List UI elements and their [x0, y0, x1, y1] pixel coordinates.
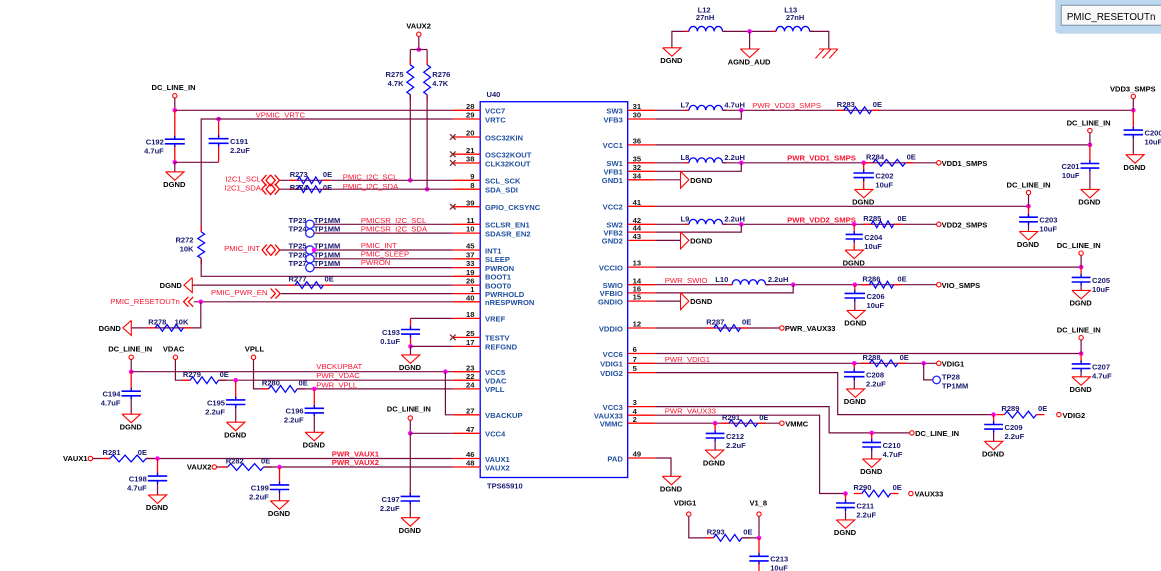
capacitor C208	[844, 371, 886, 389]
junction	[417, 47, 422, 52]
svg-text:DGND: DGND	[1069, 299, 1092, 308]
svg-text:GPIO_CKSYNC: GPIO_CKSYNC	[485, 203, 541, 212]
junction	[173, 160, 178, 165]
svg-text:R275: R275	[386, 70, 404, 79]
wire C202 lead	[863, 163, 865, 173]
chassis ground	[815, 49, 837, 58]
ground DGND (C195)	[224, 422, 247, 439]
wire C201 lead	[1089, 145, 1091, 164]
svg-text:11: 11	[466, 216, 475, 225]
wire C213 lead	[758, 538, 760, 556]
resistor R293	[706, 528, 753, 542]
svg-text:TP1MM: TP1MM	[314, 259, 340, 268]
wire	[281, 293, 453, 295]
svg-text:VDAC: VDAC	[485, 377, 507, 386]
capacitor C199	[249, 483, 289, 501]
junction	[739, 161, 744, 166]
capacitor C204	[846, 233, 884, 251]
svg-text:27nH: 27nH	[786, 13, 804, 22]
svg-text:DC_LINE_IN: DC_LINE_IN	[387, 405, 431, 414]
junction	[155, 456, 160, 461]
svg-text:0E: 0E	[261, 457, 270, 466]
svg-text:GNDIO: GNDIO	[598, 297, 623, 306]
svg-text:VAUX1: VAUX1	[63, 454, 88, 463]
svg-text:2.2uF: 2.2uF	[230, 146, 250, 155]
svg-text:DGND: DGND	[660, 485, 683, 494]
svg-text:0E: 0E	[900, 353, 909, 362]
svg-text:C192: C192	[146, 138, 164, 147]
svg-text:VDD3_SMPS: VDD3_SMPS	[1110, 85, 1156, 94]
svg-text:DGND: DGND	[843, 258, 866, 267]
svg-text:DC_LINE_IN: DC_LINE_IN	[1057, 326, 1101, 335]
svg-text:nRESPWRON: nRESPWRON	[485, 298, 534, 307]
svg-text:VMMC: VMMC	[785, 419, 809, 428]
svg-text:DGND: DGND	[99, 324, 122, 333]
svg-text:37: 37	[466, 250, 474, 259]
svg-text:DGND: DGND	[834, 528, 857, 537]
test point TP24	[306, 229, 314, 237]
svg-text:0E: 0E	[323, 183, 332, 192]
port DC_LINE_IN (VCCIO)	[1057, 241, 1101, 255]
svg-text:R284: R284	[866, 152, 885, 161]
svg-text:PWR_VDIG1: PWR_VDIG1	[665, 355, 710, 364]
wire	[853, 377, 855, 389]
port DC_LINE_IN	[152, 83, 196, 98]
svg-text:C204: C204	[864, 233, 883, 242]
svg-text:L7: L7	[681, 101, 690, 110]
svg-text:PWR_VAUX1: PWR_VAUX1	[332, 449, 380, 458]
svg-text:R287: R287	[706, 318, 724, 327]
wire	[426, 50, 428, 65]
wire	[1028, 195, 1030, 207]
svg-text:VCCIO: VCCIO	[599, 263, 623, 272]
capacitor C198	[127, 475, 167, 493]
wire	[130, 360, 132, 372]
no-connect pin 39	[450, 204, 456, 210]
svg-text:0E: 0E	[138, 448, 147, 457]
wire VCC1 net	[655, 144, 1090, 146]
capacitor C207	[1072, 362, 1112, 380]
svg-text:R277: R277	[289, 275, 307, 284]
test point TP27	[306, 263, 314, 271]
port DC_LINE_IN (VCC3)	[910, 429, 959, 438]
svg-text:U40: U40	[487, 90, 501, 99]
resistor R279	[182, 370, 229, 384]
svg-text:0E: 0E	[1038, 404, 1047, 413]
svg-text:R293: R293	[707, 528, 725, 537]
wire VFB2	[655, 224, 741, 232]
svg-text:R273: R273	[290, 170, 308, 179]
svg-text:R289: R289	[1001, 404, 1019, 413]
wire	[1132, 99, 1134, 111]
wire	[853, 239, 855, 250]
wire GNDIO	[655, 300, 680, 302]
svg-text:4.7uF: 4.7uF	[144, 147, 164, 156]
wire	[175, 161, 219, 163]
wire C206 lead	[854, 285, 856, 294]
svg-text:DGND: DGND	[224, 431, 247, 440]
svg-text:DGND: DGND	[690, 176, 713, 185]
svg-text:DGND: DGND	[303, 441, 326, 450]
junction	[408, 344, 413, 349]
svg-text:6: 6	[633, 345, 637, 354]
svg-text:C200: C200	[1145, 129, 1161, 138]
svg-text:7: 7	[633, 355, 637, 364]
svg-text:0E: 0E	[873, 100, 882, 109]
wire	[130, 396, 132, 414]
svg-text:30: 30	[633, 111, 641, 120]
svg-text:20: 20	[466, 129, 474, 138]
svg-text:DC_LINE_IN: DC_LINE_IN	[915, 429, 959, 438]
svg-text:DGND: DGND	[163, 180, 186, 189]
wire VDIG1 net	[655, 362, 939, 364]
wire	[279, 188, 452, 190]
svg-text:PMIC_I2C_SCL: PMIC_I2C_SCL	[343, 173, 398, 182]
svg-text:VMMC: VMMC	[600, 420, 624, 429]
svg-text:10uF: 10uF	[1039, 225, 1057, 234]
wire VMMC net	[655, 422, 782, 424]
svg-text:DC_LINE_IN: DC_LINE_IN	[1067, 118, 1111, 127]
svg-text:0.1uF: 0.1uF	[380, 337, 400, 346]
svg-text:PWR_VDAC: PWR_VDAC	[316, 371, 360, 380]
wire	[749, 31, 751, 49]
svg-text:C197: C197	[382, 495, 400, 504]
wire	[758, 561, 760, 571]
svg-text:R281: R281	[103, 448, 121, 457]
wire	[313, 413, 315, 432]
resistor R284	[865, 152, 916, 166]
capacitor C206	[845, 292, 885, 310]
port VMMC	[780, 419, 809, 428]
svg-text:SDASR_EN2: SDASR_EN2	[485, 229, 531, 238]
wire VCC5 net	[131, 371, 453, 373]
svg-text:2.2uF: 2.2uF	[866, 380, 886, 389]
svg-text:SLEEP: SLEEP	[485, 255, 510, 264]
wire	[655, 284, 732, 286]
test point TP25	[306, 246, 314, 254]
junction	[277, 465, 282, 470]
test point TP26	[306, 255, 314, 263]
resistor R290	[853, 483, 901, 497]
wire	[426, 95, 428, 190]
wire PAD net	[655, 458, 671, 476]
wire VAUX1 net	[146, 458, 453, 460]
svg-text:R282: R282	[226, 457, 244, 466]
svg-text:10uF: 10uF	[1092, 285, 1110, 294]
resistor R288	[862, 353, 909, 367]
svg-text:33: 33	[466, 259, 474, 268]
svg-text:VAUX33: VAUX33	[915, 490, 944, 499]
wire	[314, 258, 453, 260]
svg-text:VDIG1: VDIG1	[674, 499, 697, 508]
svg-text:C209: C209	[1005, 423, 1023, 432]
resistor R285	[863, 214, 906, 228]
svg-text:PMIC_INT: PMIC_INT	[224, 244, 260, 253]
svg-text:R279: R279	[183, 370, 201, 379]
capacitor C192	[144, 138, 185, 156]
ground DGND (C206)	[844, 310, 867, 327]
svg-text:34: 34	[633, 171, 642, 180]
svg-text:VBCKUPBAT: VBCKUPBAT	[316, 362, 362, 371]
svg-text:4.7uF: 4.7uF	[883, 450, 903, 459]
svg-text:VDD1_SMPS: VDD1_SMPS	[942, 159, 988, 168]
svg-text:R288: R288	[863, 353, 881, 362]
port VDAC	[163, 345, 185, 360]
wire VCCIO net	[655, 266, 1081, 268]
wire	[131, 302, 201, 328]
svg-text:10uF: 10uF	[770, 564, 788, 571]
off-page connector PMIC_RESETOUTn	[184, 297, 194, 307]
capacitor C197	[380, 495, 420, 513]
junction	[921, 361, 926, 366]
svg-text:GND1: GND1	[602, 176, 624, 185]
junction	[991, 412, 996, 417]
wire	[410, 49, 427, 51]
svg-text:PWR_VAUX2: PWR_VAUX2	[332, 458, 379, 467]
svg-text:SDA_SDI: SDA_SDI	[485, 186, 518, 195]
port VPLL	[245, 345, 265, 360]
wire	[672, 31, 689, 47]
capacitor C202	[854, 171, 894, 189]
svg-text:C199: C199	[251, 483, 269, 492]
port DC_LINE_IN (VCC1)	[1067, 118, 1111, 133]
wire VAUX2 net	[264, 466, 453, 468]
svg-text:C201: C201	[1061, 162, 1079, 171]
wire	[409, 420, 411, 433]
resistor R274	[289, 183, 332, 193]
capacitor C213	[749, 555, 788, 571]
ground DGND (R278)	[99, 320, 132, 335]
wire	[418, 37, 420, 50]
wire	[279, 490, 281, 501]
svg-text:0E: 0E	[325, 275, 334, 284]
junction	[739, 108, 744, 113]
svg-text:VDD2_SMPS: VDD2_SMPS	[942, 221, 988, 230]
svg-text:VCC4: VCC4	[485, 430, 506, 439]
svg-text:PMIC_RESETOUTn: PMIC_RESETOUTn	[1067, 12, 1156, 23]
wire	[254, 360, 269, 389]
junction	[312, 248, 317, 253]
svg-text:4.7K: 4.7K	[432, 79, 448, 88]
wire C208 lead	[853, 363, 855, 372]
resistor R283	[836, 100, 882, 114]
wire	[157, 481, 159, 495]
svg-text:TP1MM: TP1MM	[942, 382, 968, 391]
wire	[689, 516, 714, 538]
wire VDD2 net	[723, 223, 939, 225]
wire	[758, 516, 760, 538]
wire	[1080, 282, 1082, 290]
wire VCC3 net	[655, 407, 912, 433]
port VIO_SMPS	[937, 281, 981, 290]
junction	[713, 421, 718, 426]
svg-text:VRTC: VRTC	[485, 115, 506, 124]
wire C205 lead	[1080, 267, 1082, 277]
wire	[810, 31, 829, 49]
svg-text:VCC1: VCC1	[603, 141, 624, 150]
svg-text:PWR_VAUX33: PWR_VAUX33	[785, 324, 836, 333]
wire	[1080, 255, 1082, 267]
port DC_LINE_IN (VCC6)	[1057, 326, 1101, 340]
port VDIG2	[1057, 411, 1085, 420]
wire	[409, 501, 411, 518]
ground AGND_AUD	[728, 49, 771, 66]
ground DGND (C200)	[1123, 155, 1146, 172]
svg-text:DGND: DGND	[703, 458, 726, 467]
no-connect pin 21	[450, 151, 456, 157]
wire C197 lead	[409, 492, 411, 497]
junction	[233, 378, 238, 383]
no-connect pin 25	[450, 335, 456, 341]
port VAUX33	[909, 490, 944, 499]
svg-text:0E: 0E	[897, 274, 906, 283]
svg-text:31: 31	[633, 102, 642, 111]
svg-text:49: 49	[633, 450, 641, 459]
svg-text:10K: 10K	[180, 245, 194, 254]
svg-text:R285: R285	[863, 214, 881, 223]
test point TP23	[306, 220, 314, 228]
capacitor pin stubs	[131, 127, 1133, 565]
svg-text:DGND: DGND	[268, 509, 291, 518]
svg-text:DGND: DGND	[120, 423, 143, 432]
svg-text:0E: 0E	[742, 318, 751, 327]
wire	[411, 345, 453, 347]
wire C198 lead	[157, 459, 159, 477]
junction	[843, 491, 848, 496]
svg-text:C213: C213	[770, 555, 788, 564]
svg-text:2.2uF: 2.2uF	[1005, 432, 1025, 441]
svg-text:GND2: GND2	[602, 237, 623, 246]
svg-text:DGND: DGND	[146, 503, 169, 512]
junction	[199, 300, 204, 305]
no-connect pin 38	[450, 160, 456, 166]
svg-text:PWR_VDD2_SMPS: PWR_VDD2_SMPS	[787, 215, 856, 224]
svg-text:DGND: DGND	[690, 297, 713, 306]
wire	[409, 50, 411, 65]
wire C209 lead	[993, 415, 995, 425]
ground DGND (C202)	[852, 189, 875, 206]
svg-text:DGND: DGND	[844, 397, 867, 406]
off-page connector I2C1_SDA	[262, 184, 280, 195]
off-page connector I2C1_SCL	[262, 175, 280, 186]
ground DGND (C198)	[146, 495, 169, 512]
ground DGND (C193)	[399, 355, 422, 372]
wire C204 lead	[853, 224, 855, 234]
svg-text:VDIG1: VDIG1	[942, 360, 965, 369]
svg-text:DGND: DGND	[399, 363, 422, 372]
svg-text:39: 39	[466, 198, 474, 207]
svg-text:36: 36	[633, 137, 641, 146]
svg-text:DGND: DGND	[844, 319, 867, 328]
inductor L10	[715, 275, 788, 285]
svg-text:R276: R276	[432, 70, 450, 79]
wire C203 lead	[1028, 206, 1030, 217]
off-page connector PMIC_INT	[262, 245, 280, 256]
port VDD1_SMPS	[937, 159, 988, 168]
capacitor C209	[984, 423, 1024, 441]
svg-text:10uF: 10uF	[1062, 171, 1080, 180]
svg-text:R283: R283	[837, 100, 855, 109]
junction	[425, 187, 430, 192]
svg-text:OSC32KOUT: OSC32KOUT	[485, 151, 532, 160]
svg-text:DGND: DGND	[1078, 198, 1101, 207]
svg-text:9: 9	[470, 172, 474, 181]
svg-text:R280: R280	[262, 379, 280, 388]
svg-text:2.2uF: 2.2uF	[380, 504, 400, 513]
svg-text:22: 22	[466, 372, 474, 381]
resistor R280	[261, 379, 308, 393]
svg-text:DGND: DGND	[860, 467, 883, 476]
ground DGND (C205)	[1069, 290, 1092, 307]
svg-text:18: 18	[466, 310, 474, 319]
svg-text:DC_LINE_IN: DC_LINE_IN	[1007, 180, 1051, 189]
svg-text:TP28: TP28	[942, 372, 960, 381]
svg-text:24: 24	[466, 381, 475, 390]
wire	[93, 458, 111, 460]
svg-text:DC_LINE_IN: DC_LINE_IN	[152, 83, 196, 92]
wire	[655, 162, 689, 164]
wire	[1089, 168, 1091, 189]
svg-text:VBACKUP: VBACKUP	[485, 411, 523, 420]
svg-text:C198: C198	[129, 475, 147, 484]
capacitor C196	[284, 407, 324, 425]
wire VCC2 net	[655, 205, 1028, 207]
svg-text:0E: 0E	[897, 214, 906, 223]
capacitor C212	[706, 432, 746, 450]
junction	[1079, 265, 1084, 270]
svg-text:INT1: INT1	[485, 246, 502, 255]
svg-text:V1_8: V1_8	[750, 499, 768, 508]
wire	[201, 119, 453, 232]
svg-text:DGND: DGND	[1123, 163, 1146, 172]
wire	[1089, 133, 1091, 145]
wire VDDIO net	[655, 327, 782, 329]
svg-text:0E: 0E	[220, 370, 229, 379]
svg-text:TP24: TP24	[289, 225, 308, 234]
wire	[411, 317, 453, 319]
svg-text:DC_LINE_IN: DC_LINE_IN	[108, 345, 152, 354]
off-page connector PMIC_PWR_EN	[271, 289, 281, 299]
wire C200 lead	[1132, 110, 1134, 130]
junction	[1079, 351, 1084, 356]
resistor R275	[386, 59, 414, 101]
svg-text:VDIG2: VDIG2	[1063, 411, 1086, 420]
svg-text:TP1MM: TP1MM	[314, 242, 340, 251]
svg-text:BOOT1: BOOT1	[485, 273, 512, 282]
svg-text:TP25: TP25	[289, 242, 307, 251]
wire VCC4 net	[410, 432, 453, 434]
svg-text:C196: C196	[286, 407, 304, 416]
junction	[312, 387, 317, 392]
svg-text:VIO_SMPS: VIO_SMPS	[942, 281, 981, 290]
svg-text:AGND_AUD: AGND_AUD	[728, 57, 771, 66]
svg-text:C211: C211	[856, 501, 874, 510]
wire GND1	[655, 179, 680, 181]
port DC_LINE_IN (VCC2)	[1007, 180, 1051, 195]
svg-text:R278: R278	[148, 318, 166, 327]
ground DGND (C209)	[982, 441, 1005, 458]
wire VFB3	[655, 110, 741, 119]
wire VCC6 net	[655, 353, 1081, 355]
svg-text:DGND: DGND	[399, 526, 422, 535]
svg-text:DGND: DGND	[160, 281, 183, 290]
resistor R272	[175, 226, 204, 265]
wire	[314, 267, 453, 269]
svg-text:43: 43	[633, 232, 641, 241]
inductor L7	[681, 101, 745, 111]
svg-text:41: 41	[633, 198, 642, 207]
svg-text:C193: C193	[382, 328, 400, 337]
